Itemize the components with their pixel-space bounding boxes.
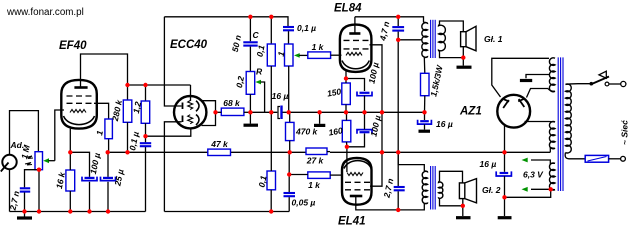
wire: resistor 0,1 lower bottom lead: [270, 190, 272, 212]
wire: coupling node to ECC40 g2 at tube bottom: [146, 129, 191, 137]
wire: 470k bottom to B+ rail: [289, 141, 291, 153]
wire: EL84 anode rail to OT1: [355, 17, 424, 23]
svg-text:R: R: [256, 67, 263, 77]
svg-text:47 k: 47 k: [210, 139, 229, 149]
wire: branch node to 1k EL41: [289, 174, 308, 176]
wire: screen resistor bottom lead: [108, 139, 110, 153]
switch arrowhead: [599, 71, 606, 78]
input jack circle: [2, 155, 16, 169]
capacitor 2,7n plates: [20, 187, 30, 189]
junction dot coupling node: [143, 134, 147, 138]
capacitor 0,1u (EF40) leads: [145, 136, 147, 142]
junction dot rail 16k: [68, 209, 72, 213]
wire: OT1 primary bottom to 1,5k: [423, 57, 426, 73]
capacitor 16u series (black bracket + blue bar): [278, 106, 282, 120]
heater arrow lower: [522, 187, 528, 192]
ground symbol (main left): [17, 212, 32, 218]
resistor 68 k: [221, 108, 244, 115]
resistor 16 k: [66, 170, 75, 191]
wire: EF40 grid from volume pot wiper riser: [55, 110, 64, 161]
junction dot mid rail 16u: [422, 110, 426, 114]
wire: wiper to 1k EL84: [299, 54, 308, 56]
capacitor 2,7n (EL41) plates: [394, 186, 405, 188]
junction dot screen node B+: [106, 150, 110, 154]
wire: 16u B+ top lead: [504, 152, 506, 172]
wire: ECC40 upper cathode drop x=164 from top rail to tube: [164, 17, 181, 106]
wire: filament winding top end: [549, 121, 555, 124]
capacitor 100u (EL84 cathode): [357, 92, 372, 96]
wire: 280k bottom to B+ rail: [127, 122, 129, 152]
svg-text:ECC40: ECC40: [170, 39, 208, 51]
speaker Gl.1: [461, 26, 476, 51]
ground symbol (16u B+): [498, 216, 512, 219]
capacitor 4,7n plates: [392, 26, 404, 28]
tube ECC40 grid zigzag lower: [188, 115, 193, 124]
transformer PT core: [558, 57, 563, 191]
capacitor 16u (mid rail): [418, 120, 432, 124]
tube EF40 envelope: [61, 80, 97, 129]
wire: AZ1 filament right to winding: [525, 121, 550, 123]
capacitor 0,1u plates: [140, 142, 151, 144]
wire: AZ1 left plate to HV top: [492, 58, 549, 97]
wire: jack bottom to ground rail: [9, 169, 11, 211]
wire: 0,1u to pot 1 top: [288, 31, 290, 44]
wire: switch to terminal: [609, 83, 621, 85]
wire: 1k to EL84 grid: [331, 54, 342, 56]
wire: screen bus lower segment: [381, 112, 383, 152]
tube ECC40 circle: [174, 96, 206, 128]
junction dot top rail 0,1: [269, 15, 273, 19]
transformer PT filament winding (AZ1): [549, 122, 555, 149]
wire: anode node to coupling node y=85: [128, 84, 191, 86]
wire: 150 EL41 bottom lead: [346, 142, 348, 147]
wire: pot 1M bottom to ground rail: [38, 170, 40, 212]
junction dot heater return: [502, 195, 506, 199]
resistor 0,1 (tone): [267, 44, 275, 66]
capacitor 50n top lead from rail: [249, 17, 251, 42]
ground symbol (16u mid): [419, 130, 431, 133]
wire: mains winding top to switch: [566, 83, 591, 86]
potentiometer 0,2: [246, 72, 255, 95]
svg-text:6,3 V: 6,3 V: [523, 170, 544, 180]
junction dot EF40 anode 1,2: [143, 83, 147, 87]
wire: drop to EL41 grid branch: [288, 152, 290, 174]
wire: branch node down to 0,05u: [288, 175, 290, 193]
wire: 0,2 wiper loop to mid rail: [261, 82, 265, 112]
junction dot speaker 2: [461, 204, 465, 208]
resistor 0,1 (tone) top lead: [270, 17, 272, 44]
capacitor 2,7n (EL41) top lead: [397, 152, 399, 186]
tube EL41 grid dashes row 2: [345, 189, 370, 191]
tube EL84 cathode zigzag: [346, 52, 362, 55]
svg-text:EL41: EL41: [338, 216, 366, 228]
transformer PT mains winding: [566, 84, 572, 153]
capacitor 4,7n bottom lead: [397, 32, 399, 40]
wire: 100u bottom to mid rail: [364, 96, 366, 113]
svg-text:0,05 µ: 0,05 µ: [292, 198, 316, 208]
tube EF40 cathode zigzag: [70, 110, 86, 113]
wire: B+ end up into filament winding: [549, 148, 551, 153]
resistor 1,2: [141, 101, 150, 123]
transformer OT2 secondary winding: [439, 181, 443, 198]
resistor 1,2 top lead: [145, 85, 147, 101]
junction dot mid rail ground: [317, 110, 321, 114]
tube ECC40 cathode bar upper: [182, 103, 184, 110]
wire: EF40 g2 to screen resistor: [94, 103, 109, 119]
ground symbol (speaker 1): [457, 58, 472, 68]
tube ECC40 anode arc lower: [196, 115, 199, 126]
svg-text:27 k: 27 k: [306, 156, 325, 166]
switch lever: [591, 77, 610, 85]
junction dot rail 100u: [87, 209, 91, 213]
svg-text:Gł. 1: Gł. 1: [484, 34, 503, 44]
tube ECC40 grid zigzag upper: [188, 101, 193, 110]
wire: pot 0,2 bottom to 68k node: [249, 94, 251, 112]
tube AZ1 circle: [497, 95, 530, 128]
junction dot mid rail screen bus: [380, 110, 384, 114]
junction dot EL84 anode 4,7n: [396, 15, 400, 19]
wire: 100u EL41 bottom to cathode node: [347, 134, 365, 147]
wire: pot bottom to 2,7n: [25, 170, 40, 188]
wire: AZ1 filament left to B+ node: [504, 125, 506, 153]
junction dot B+ screen bus: [380, 150, 384, 154]
wire: 1k to EL41 grid: [330, 174, 341, 176]
ground rail segment 2: [164, 211, 289, 213]
tube AZ1 plate left: [503, 99, 509, 108]
wire: 25u top lead: [107, 152, 109, 177]
tube EF40 anode bar: [74, 86, 87, 89]
resistor 280k leads: [127, 85, 129, 100]
wire: EL84 anode lead up: [354, 17, 356, 34]
speaker Gl.2: [459, 179, 476, 203]
junction dot rail pot: [37, 209, 41, 213]
potentiometer 1M wiper arrow: [43, 158, 49, 163]
capacitor 50n plates: [243, 41, 257, 43]
input jack slash: [1, 163, 9, 172]
junction dot speaker 1: [461, 55, 465, 59]
junction dot EL84 cathode: [344, 76, 348, 80]
tube EL41 envelope: [342, 158, 372, 205]
resistor 1 (EF40 screen): [105, 119, 113, 139]
tube EL41 anode bar: [350, 195, 363, 198]
tube EL41 grid dashes row 1 (screen): [345, 181, 370, 183]
potentiometer 1 (drive): [285, 44, 294, 66]
junction dot mid rail 100u: [362, 110, 366, 114]
wire: 1,2 bottom to coupling node: [145, 123, 147, 136]
svg-text:16 µ: 16 µ: [480, 159, 497, 169]
resistor 280k: [123, 100, 132, 122]
wire: cathode node to 100u: [346, 79, 365, 92]
wire: HV bottom end: [548, 89, 555, 92]
junction dot 16u left: [269, 110, 273, 114]
transformer PT heater 6,3V winding: [549, 163, 555, 190]
resistor 27 k: [306, 148, 327, 155]
junction dot EF40 cathode: [68, 150, 72, 154]
wire: resistor 0,1 bottom to mid rail: [270, 66, 272, 112]
wire: 4,7n node to OT1 tap: [398, 39, 421, 41]
wire: OT2 secondary bottom to node: [440, 198, 463, 205]
capacitor 25u bottom lead: [107, 182, 109, 212]
wire: 150 top lead: [345, 79, 347, 84]
svg-text:EF40: EF40: [59, 40, 87, 52]
wire: cathode node to 100u corner: [70, 152, 89, 177]
wire: EL41 anode down and to OT2: [356, 196, 425, 210]
resistor 150 (EL84 cathode): [342, 83, 351, 105]
mid rail (grounded): [289, 111, 425, 113]
wire: AZ1 right plate to HV bottom: [527, 89, 549, 98]
capacitor 2,7n bottom lead: [24, 193, 26, 212]
tube EL84 anode bar: [349, 32, 360, 35]
capacitor 0,1u (top corner) plates: [283, 26, 294, 28]
capacitor 100u (EL41 cathode) inverted: [357, 130, 372, 134]
potentiometer 0,2 wiper arrow: [255, 80, 261, 85]
transformer PT HV winding: [549, 58, 555, 92]
svg-text:1 k: 1 k: [308, 180, 321, 190]
tube AZ1 plate right: [518, 99, 524, 107]
transformer OT1 primary winding: [422, 22, 428, 57]
ground rail left segment: [10, 211, 146, 213]
heater arrow upper: [522, 158, 528, 163]
capacitor 2,7n (EL41) bottom lead: [397, 191, 399, 210]
resistor 16k bottom lead: [69, 191, 71, 212]
resistor 1 k (EL41 grid): [308, 172, 330, 179]
wire: screen bus to EL41 screen: [370, 152, 382, 186]
mains terminal circle upper: [621, 81, 626, 86]
wire: OT2 secondary top to speaker 2: [440, 171, 463, 183]
wire: ECC40 anode2 to 68k node: [202, 112, 216, 125]
tube EL84 inner bottom arc: [342, 61, 369, 69]
wire: resistor 0,1 lower top lead from mid rail: [270, 112, 272, 171]
wire: 6,3V bottom end to arrow: [531, 188, 555, 190]
resistor 1,5k/3W: [421, 73, 430, 95]
wire: 100u EL41 top lead: [364, 112, 366, 129]
capacitor 100u bottom lead: [89, 182, 91, 212]
transformer OT2 core: [431, 166, 436, 210]
junction dot B+ EL41 feed: [396, 150, 400, 154]
ground symbol (HV tap): [520, 79, 532, 82]
transformer OT1 secondary winding: [439, 25, 446, 52]
junction dot 68k right: [248, 110, 252, 114]
wire: 16u B+ bottom lead to ground: [504, 176, 506, 216]
wire: 16u right lead: [283, 111, 289, 113]
junction dot EL41 grid branch: [287, 172, 291, 176]
tube ECC40 anode arc upper: [196, 101, 199, 112]
svg-text:16 µ: 16 µ: [272, 91, 289, 101]
svg-text:C: C: [253, 30, 260, 40]
tube EL41 inner top arc: [344, 161, 371, 169]
junction dot B+ AZ1: [502, 150, 506, 154]
tube EF40 inner bottom arc: [64, 116, 95, 125]
svg-text:~ Sieć: ~ Sieć: [620, 120, 630, 145]
tube EF40 grid dashes row 1: [67, 95, 92, 97]
resistor 1 k (EL84 grid): [308, 52, 331, 59]
svg-text:EL84: EL84: [334, 3, 362, 15]
junction dot 4,7n tap: [396, 38, 400, 42]
svg-text:Gł. 2: Gł. 2: [482, 185, 501, 195]
wire: 150 EL41 top lead: [346, 112, 348, 120]
ground symbol (68k node): [244, 112, 259, 125]
capacitor 4,7n top lead: [397, 17, 399, 26]
wire: EF40 cathode down to node: [69, 129, 71, 153]
junction dot rail 25u: [106, 209, 110, 213]
resistor 0,1 (feedback): [267, 171, 276, 190]
ground symbol (speaker 2): [456, 206, 471, 218]
capacitor 25u (screen decoupling): [101, 177, 116, 181]
capacitor 0,05u plates: [284, 192, 296, 194]
svg-text:1 k: 1 k: [312, 42, 325, 52]
wire: mid rail 68k node to 16u: [250, 111, 277, 113]
wire: HV center tap to ground: [526, 75, 549, 79]
wire: 0,05u bottom to ground rail 2: [288, 197, 290, 211]
ground symbol (mid rail): [314, 112, 325, 125]
resistor 150 (EL41 cathode): [342, 120, 351, 141]
tube EL41 cathode zigzag: [347, 173, 363, 176]
wire: tone network top rail y=17 from x=164 to 0,1u corner: [164, 17, 288, 27]
junction dot top rail 50n: [248, 15, 252, 19]
wire: ECC40 lower cathode to ground rail x=164: [164, 122, 181, 212]
junction dot 280k bottom: [125, 150, 129, 154]
capacitor 16u (B+ filter): [496, 171, 511, 176]
potentiometer 1M: [35, 152, 43, 170]
resistor 47 k: [208, 149, 231, 155]
wire: B+ rail right of 27k: [327, 151, 330, 153]
wire: 4,7n node down to B+ rail: [397, 40, 399, 153]
capacitor 100u (EF40 cathode): [82, 177, 97, 181]
wire: 16u leads: [424, 112, 426, 120]
junction dot 470k bottom: [288, 150, 292, 154]
tube EF40 grid dashes row 2: [67, 102, 92, 104]
switch pivot: [590, 82, 594, 86]
wire: pot 1 bottom to mid rail node: [288, 66, 290, 112]
wire: jack top to pot top loop: [10, 111, 39, 155]
wire: speaker bottom lead: [462, 47, 464, 58]
wire: mains winding bottom to fuse: [565, 153, 585, 159]
junction dot rail 2,7n: [22, 209, 26, 213]
wire: ECC40 grid1 drop into tube: [190, 85, 192, 101]
wire: screen node B+ rail left segment: [108, 151, 208, 153]
wire: EF40 anode up and over to 280k junction: [81, 54, 128, 88]
wire: 68k leads: [216, 111, 222, 113]
wire: B+ to OT2 primary top: [398, 152, 424, 171]
wire: speaker 2 bottom lead: [462, 199, 464, 206]
wire: OT1 secondary top to speaker: [440, 21, 464, 32]
junction dot mid rail 150 EL84: [344, 110, 348, 114]
wire: ECC40 anode1 to 68k node: [202, 101, 216, 113]
transformer OT2 primary winding: [422, 171, 427, 204]
wire: 6,3V top end to arrow: [531, 160, 555, 163]
switch contact circle: [605, 82, 609, 86]
wire: OT1 secondary bottom to speaker node: [440, 51, 464, 58]
junction dot EL41 anode 2,7n: [396, 208, 400, 212]
wire: EL84 screen to screen bus: [370, 45, 383, 113]
mains terminal circle lower: [621, 156, 626, 161]
crystal pickup squiggle marks: [25, 156, 33, 165]
wire: EL84 cathode to node: [345, 71, 347, 79]
junction dot 16u right: [287, 110, 291, 114]
fuse: [585, 155, 608, 162]
svg-text:AZ1: AZ1: [459, 106, 482, 118]
svg-text:www.fonar.com.pl: www.fonar.com.pl: [6, 7, 84, 18]
svg-text:68 k: 68 k: [223, 98, 241, 108]
junction dot EF40 anode 280k: [125, 83, 129, 87]
wire: fuse to terminal: [609, 158, 621, 160]
wire: B+ rail mid segment: [231, 151, 307, 153]
wire: heater return to 6,3V node: [505, 189, 551, 197]
wire: 150 bottom lead: [345, 105, 347, 113]
tube EL84 grid dashes row 2 (screen): [344, 48, 369, 50]
svg-text:0,1 µ: 0,1 µ: [297, 23, 316, 33]
wire: EL41 cathode lead down into tube: [346, 147, 348, 172]
wire: 1,5k bottom to mid rail end: [424, 96, 426, 113]
tube ECC40 cathode bar lower: [182, 116, 184, 123]
junction dot rail2 0,1: [269, 209, 273, 213]
transformer OT1 core: [431, 20, 436, 58]
potentiometer 1 wiper arrow: [294, 53, 300, 58]
wire: 50n bottom to pot 0,2: [249, 47, 251, 72]
resistor 470 k top lead: [289, 112, 291, 122]
resistor 16k top lead: [69, 152, 71, 170]
junction dot 6,3V bottom: [549, 187, 553, 191]
tube EL84 grid dashes row 1: [344, 39, 369, 41]
junction dot EL41 cathode: [345, 145, 349, 149]
svg-text:470 k: 470 k: [295, 127, 319, 137]
resistor 470 k: [286, 122, 295, 140]
junction dot 68k left: [213, 110, 217, 114]
junction dot pot 1M bottom: [37, 168, 41, 172]
svg-text:16 µ: 16 µ: [436, 119, 453, 129]
tube EL84 envelope: [340, 25, 372, 72]
